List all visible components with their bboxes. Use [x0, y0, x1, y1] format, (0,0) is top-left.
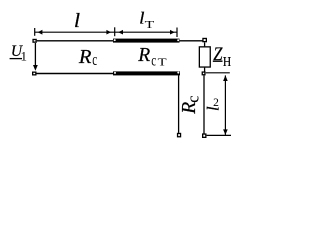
- svg-text:н: н: [223, 51, 231, 71]
- svg-text:1: 1: [21, 49, 28, 64]
- svg-text:Т: Т: [145, 20, 155, 31]
- svg-text:с: с: [184, 95, 203, 102]
- svg-text:с: с: [92, 50, 97, 69]
- svg-text:с: с: [151, 53, 156, 70]
- svg-text:R: R: [137, 45, 150, 66]
- svg-text:2: 2: [213, 97, 219, 109]
- svg-text:Z: Z: [213, 45, 223, 65]
- svg-text:l: l: [74, 11, 80, 32]
- svg-text:R: R: [78, 46, 92, 68]
- svg-text:R: R: [179, 102, 200, 115]
- svg-text:Т: Т: [158, 58, 168, 69]
